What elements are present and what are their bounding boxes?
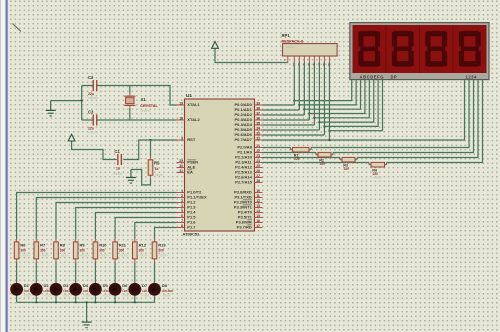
label R11 <box>119 243 127 248</box>
svg-text:LED-RED: LED-RED <box>162 289 174 293</box>
svg-text:220: 220 <box>373 172 379 176</box>
junction P0.7/RP1 <box>328 139 330 141</box>
display screen <box>353 25 487 73</box>
ground (LED rail) <box>82 322 92 328</box>
text C1 placeholder <box>113 172 124 176</box>
svg-text:XTAL1: XTAL1 <box>187 102 200 107</box>
wire LED cathode rail <box>17 301 155 303</box>
value D6 LED-RED <box>122 289 134 293</box>
text C2 placeholder <box>88 96 99 100</box>
wire crystal top lead <box>129 86 131 97</box>
pin P1.5 (6) <box>177 214 197 220</box>
svg-text:R13: R13 <box>158 243 166 248</box>
value D7 LED-RED <box>142 289 154 293</box>
svg-text:<TEXT>: <TEXT> <box>294 161 304 165</box>
label X1 <box>141 97 147 102</box>
text R5 placeholder <box>154 173 165 177</box>
label R10 <box>99 243 107 248</box>
wire R13 to D8 <box>154 259 156 284</box>
label C3 <box>88 110 94 115</box>
svg-text:15: 15 <box>256 214 260 218</box>
value D8 LED-RED <box>162 289 174 293</box>
svg-text:X1: X1 <box>141 97 147 102</box>
svg-text:<TEXT>: <TEXT> <box>63 295 73 298</box>
svg-text:24: 24 <box>256 159 260 163</box>
text D2 placeholder <box>44 295 54 298</box>
svg-text:<TEXT>: <TEXT> <box>83 295 93 298</box>
wire R7 to D2 <box>35 259 37 284</box>
wire RP1 pin 5 pull-up to P0.3 <box>308 56 310 120</box>
wire display segment B <box>299 80 356 105</box>
pin P0.1/AD1 (38) <box>234 106 262 112</box>
pin P1.0/T2 (1) <box>177 189 203 195</box>
wire display segment F <box>319 80 373 123</box>
text D5 placeholder <box>103 295 113 298</box>
svg-text:RP1: RP1 <box>282 33 291 38</box>
svg-text:AT89C52: AT89C52 <box>183 231 201 236</box>
wire ground branch <box>51 100 82 102</box>
pin P3.1/TXD (11) <box>234 194 262 200</box>
svg-text:16: 16 <box>256 219 260 223</box>
label D8 <box>162 283 168 288</box>
svg-text:31: 31 <box>179 169 183 173</box>
svg-text:D4: D4 <box>83 283 89 288</box>
wire R4 to display digit 4 <box>385 80 483 165</box>
svg-text:26: 26 <box>256 169 260 173</box>
pin P2.3/A11 (24) <box>235 159 262 165</box>
wire R9 to D4 <box>75 259 77 284</box>
svg-text:<TEXT>: <TEXT> <box>88 131 99 135</box>
value R1 220 <box>294 157 300 161</box>
led D3 <box>50 283 62 295</box>
svg-text:<TEXT>: <TEXT> <box>103 295 113 298</box>
svg-text:R12: R12 <box>139 243 147 248</box>
resistor R13 <box>152 242 157 259</box>
svg-text:17: 17 <box>256 224 260 228</box>
pin P3.0/RXD (10) <box>234 189 262 195</box>
value C2 22u <box>88 92 94 96</box>
label R12 <box>139 243 147 248</box>
text RP1 placeholder <box>285 45 295 49</box>
svg-text:9: 9 <box>181 136 183 140</box>
led D1 <box>11 283 23 295</box>
wire D8 to cathode rail <box>154 295 156 303</box>
cursor line <box>13 24 22 32</box>
display digit 3 (8) <box>425 31 447 67</box>
svg-text:37: 37 <box>256 111 260 115</box>
wire RP1 pin 3 pull-up to P0.1 <box>298 56 300 110</box>
svg-text:34: 34 <box>256 126 260 130</box>
wire P1.1 to R7 column <box>36 198 176 242</box>
label D1 <box>24 283 30 288</box>
capacitor C2 <box>93 80 98 91</box>
resistor R5 <box>148 160 153 175</box>
wire R5 top lead <box>150 140 152 160</box>
label R9 <box>80 243 86 248</box>
svg-text:29: 29 <box>179 159 183 163</box>
display digit 1 (8) <box>358 31 380 67</box>
svg-text:35: 35 <box>256 121 260 125</box>
svg-text:R8: R8 <box>60 243 66 248</box>
label D5 <box>103 283 109 288</box>
wire P1.5 to R11 column <box>115 218 176 242</box>
display digit 2 (8) <box>392 31 414 67</box>
pin P1.4 (5) <box>177 209 197 215</box>
display cell separator 2 <box>419 25 421 73</box>
capacitor C3 <box>93 115 98 126</box>
svg-text:<TEXT>: <TEXT> <box>44 295 54 298</box>
text R10 placeholder <box>99 254 109 258</box>
wire rail to ground <box>86 302 88 322</box>
pin P2.6/A14 (27) <box>235 174 262 180</box>
pin P0.6/AD6 (33) <box>234 131 262 137</box>
svg-text:10: 10 <box>256 189 260 193</box>
svg-text:<TEXT>: <TEXT> <box>154 173 165 177</box>
pin P2.7/A15 (28) <box>235 179 262 185</box>
svg-text:<TEXT>: <TEXT> <box>20 254 30 258</box>
crystal X1 <box>124 96 135 105</box>
svg-text:D2: D2 <box>44 283 50 288</box>
svg-text:D7: D7 <box>142 283 148 288</box>
value D5 LED-RED <box>103 289 115 293</box>
svg-text:25: 25 <box>256 164 260 168</box>
label C1 <box>115 149 121 154</box>
node VCC power arrow (RP1) <box>212 42 219 50</box>
svg-text:R6: R6 <box>20 243 26 248</box>
wire RP1 pin 2 pull-up to P0.0 <box>293 56 295 105</box>
wire P2.3 to R4 <box>263 163 372 165</box>
pin P3.5/T1 (15) <box>238 214 263 220</box>
pin P1.3 (4) <box>177 204 197 210</box>
wire P0.2 row <box>263 114 305 116</box>
resistor R4 <box>371 162 385 167</box>
pin P0.7/AD7 (32) <box>234 136 262 142</box>
pin P3.3/INT1 (13) <box>234 204 263 210</box>
svg-text:P2.7/A15: P2.7/A15 <box>235 180 252 185</box>
resistor R11 <box>113 242 118 259</box>
led D6 <box>109 283 121 295</box>
svg-text:6: 6 <box>181 214 183 218</box>
svg-text:220: 220 <box>344 167 350 171</box>
svg-text:7: 7 <box>181 219 183 223</box>
junction segment net H <box>328 130 330 132</box>
label R13 <box>158 243 166 248</box>
value R10 300 <box>99 249 105 253</box>
wire RP1 pin 6 pull-up to P0.4 <box>313 56 315 125</box>
label D7 <box>142 283 148 288</box>
svg-text:1u: 1u <box>116 166 120 170</box>
label R6 <box>20 243 26 248</box>
text R1 placeholder <box>294 161 304 165</box>
value R5 1k <box>155 167 159 171</box>
wire R2 to display digit 2 <box>331 80 474 155</box>
text D6 placeholder <box>122 295 132 298</box>
label R4 <box>372 168 378 172</box>
value C1 1u <box>116 166 120 170</box>
pin P0.4/AD4 (35) <box>234 121 262 127</box>
svg-text:220: 220 <box>320 162 326 166</box>
svg-text:P3.7/RD: P3.7/RD <box>237 225 252 230</box>
pin P0.2/AD2 (37) <box>234 111 262 117</box>
led D4 <box>70 283 82 295</box>
wire R11 to D6 <box>114 259 116 284</box>
pin P2.5/A13 (26) <box>235 169 262 175</box>
svg-text:D6: D6 <box>122 283 128 288</box>
svg-text:R9: R9 <box>80 243 86 248</box>
svg-text:30: 30 <box>179 164 183 168</box>
wire RP1 pin 4 pull-up to P0.2 <box>303 56 305 115</box>
text D3 placeholder <box>63 295 73 298</box>
text R13 placeholder <box>158 254 168 258</box>
value U1 AT89C52 <box>183 231 201 236</box>
svg-text:13: 13 <box>256 204 260 208</box>
svg-text:C1: C1 <box>115 149 121 154</box>
wire P1.4 to R10 column <box>95 213 176 242</box>
svg-text:<TEXT>: <TEXT> <box>24 295 34 298</box>
wire R10 to D5 <box>94 259 96 284</box>
pin P1.7 (8) <box>177 224 197 230</box>
RP1 pin numbers <box>284 59 330 67</box>
value RP1 RESPACK-8 <box>282 39 304 43</box>
wire D7 to cathode rail <box>134 295 136 303</box>
wire D3 to cathode rail <box>55 295 57 303</box>
svg-text:P1.7: P1.7 <box>187 225 196 230</box>
value C3 22u <box>88 127 94 131</box>
value X1 CRYSTAL <box>140 104 158 108</box>
value D2 LED-RED <box>44 289 56 293</box>
wire D6 to cathode rail <box>114 295 116 303</box>
svg-text:<TEXT>: <TEXT> <box>119 254 129 258</box>
svg-text:R5: R5 <box>154 160 160 165</box>
junction segment net A <box>293 100 295 102</box>
value R2 220 <box>320 162 326 166</box>
value D1 LED-RED <box>24 289 36 293</box>
resistor R6 <box>14 242 19 259</box>
svg-text:XTAL2: XTAL2 <box>187 117 200 122</box>
pin P1.6 (7) <box>177 219 197 225</box>
text R11 placeholder <box>119 254 129 258</box>
node VCC power arrow (reset) <box>68 134 75 142</box>
wire P1.7 to R13 column <box>155 228 177 242</box>
wire display segment DP <box>329 80 382 131</box>
junction segment net B <box>298 104 300 106</box>
svg-text:19: 19 <box>179 101 183 105</box>
svg-text:<TEXT>: <TEXT> <box>142 295 152 298</box>
pin P2.2/A10 (23) <box>235 154 262 160</box>
resistor R1 <box>293 147 309 152</box>
text X1 placeholder <box>140 109 151 113</box>
pin P3.2/INT0 (12) <box>234 199 263 205</box>
pin P2.4/A12 (25) <box>235 164 262 170</box>
mcu U1 body <box>185 99 255 231</box>
junction rail center <box>86 301 88 303</box>
wire P0.6 row <box>263 134 325 136</box>
pin P3.7/RD (17) <box>237 224 263 230</box>
svg-text:4: 4 <box>181 204 183 208</box>
wire D1 to cathode rail <box>16 295 18 303</box>
junction at ground rail <box>81 100 83 102</box>
wire R1 to display digit 1 <box>309 80 469 150</box>
led D8 <box>149 283 161 295</box>
wire left ground rail vertical <box>81 86 83 121</box>
wire P0.3 row <box>263 119 310 121</box>
pin RST (9) <box>177 136 196 142</box>
svg-text:300: 300 <box>80 249 86 253</box>
svg-text:8: 8 <box>181 224 183 228</box>
pin XTAL2 (18) <box>177 116 201 122</box>
wire crystal bottom lead <box>129 105 131 120</box>
svg-text:5: 5 <box>181 209 183 213</box>
capacitor C1 <box>117 154 122 165</box>
svg-text:300: 300 <box>40 249 46 253</box>
wire D4 to cathode rail <box>75 295 77 303</box>
label R3 <box>343 163 348 167</box>
svg-text:220: 220 <box>294 157 300 161</box>
svg-text:RESPACK-8: RESPACK-8 <box>282 39 304 43</box>
wire R12 to D7 <box>134 259 136 284</box>
svg-text:<TEXT>: <TEXT> <box>162 295 172 298</box>
text R7 placeholder <box>40 254 50 258</box>
svg-text:<TEXT>: <TEXT> <box>140 109 151 113</box>
wire RP1 pin 9 pull-up to P0.7 <box>328 56 330 140</box>
svg-text:14: 14 <box>256 209 260 213</box>
value R3 220 <box>344 167 350 171</box>
display digit labels 1234 <box>466 74 477 79</box>
display cell separator 3 <box>452 25 454 73</box>
wire P0.5 row <box>263 129 320 131</box>
svg-text:C2: C2 <box>88 75 94 80</box>
pin P0.5/AD5 (34) <box>234 126 262 132</box>
wire display segment G <box>324 80 378 127</box>
label RP1 <box>282 33 291 38</box>
wire R8 to D3 <box>55 259 57 284</box>
junction rail col 5 <box>114 301 116 303</box>
pin P2.0/A8 (21) <box>237 144 262 150</box>
value R11 300 <box>119 249 125 253</box>
wire VCC to C1 <box>72 142 117 160</box>
svg-text:<TEXT>: <TEXT> <box>139 254 149 258</box>
svg-text:3: 3 <box>181 199 183 203</box>
led D7 <box>129 283 141 295</box>
svg-text:1k: 1k <box>155 167 159 171</box>
svg-text:<TEXT>: <TEXT> <box>60 254 70 258</box>
svg-text:D5: D5 <box>103 283 109 288</box>
text D8 placeholder <box>162 295 172 298</box>
svg-text:ABCDEFG: ABCDEFG <box>360 74 385 79</box>
text R6 placeholder <box>20 254 30 258</box>
pin P3.4/T0 (14) <box>238 209 263 215</box>
svg-text:300: 300 <box>60 249 66 253</box>
text R9 placeholder <box>80 254 90 258</box>
wire P0.7 row to display <box>263 80 465 140</box>
label U1 <box>186 93 192 98</box>
wire R3 to display digit 3 <box>355 80 478 160</box>
svg-text:<TEXT>: <TEXT> <box>80 254 90 258</box>
value D3 LED-RED <box>63 289 75 293</box>
label R8 <box>60 243 66 248</box>
svg-text:EA: EA <box>187 170 193 175</box>
text R12 placeholder <box>139 254 149 258</box>
text D7 placeholder <box>142 295 152 298</box>
wire XTAL2 net (C3 rail to pin 18) <box>82 119 177 121</box>
svg-text:28: 28 <box>256 179 260 183</box>
wire P2.1 to R2 <box>263 153 319 155</box>
led D5 <box>89 283 101 295</box>
display segment labels <box>360 74 398 79</box>
label R7 <box>40 243 46 248</box>
wire D2 to cathode rail <box>35 295 37 303</box>
resistor R3 <box>342 157 355 162</box>
resistor R10 <box>93 242 98 259</box>
label C2 <box>88 75 94 80</box>
value D4 LED-RED <box>83 289 95 293</box>
svg-text:<TEXT>: <TEXT> <box>40 254 50 258</box>
svg-text:D8: D8 <box>162 283 168 288</box>
wire P0.4 row <box>263 124 315 126</box>
svg-text:23: 23 <box>256 154 260 158</box>
junction segment net D <box>308 112 310 114</box>
svg-text:1234: 1234 <box>466 74 477 79</box>
label D3 <box>63 283 69 288</box>
display digit 4 (8) <box>459 31 481 67</box>
resistor R9 <box>73 242 78 259</box>
pin ALE (30) <box>177 164 196 170</box>
wire XTAL1 net (C2 rail to pin 19) <box>82 86 177 106</box>
junction segment net G <box>323 125 325 127</box>
pin PSEN (29) <box>177 159 199 165</box>
svg-text:U1: U1 <box>186 93 192 98</box>
text D4 placeholder <box>83 295 93 298</box>
pin P3.6/WR (16) <box>236 219 263 225</box>
display cell separator 1 <box>385 25 387 73</box>
svg-text:D3: D3 <box>63 283 69 288</box>
junction segment net E <box>313 117 315 119</box>
pin P0.3/AD3 (36) <box>234 116 262 122</box>
svg-text:R10: R10 <box>99 243 107 248</box>
junction rail col 3 <box>75 301 77 303</box>
svg-text:1: 1 <box>181 189 183 193</box>
svg-text:32: 32 <box>256 136 260 140</box>
svg-text:39: 39 <box>256 101 260 105</box>
ground (crystal caps) <box>46 101 56 116</box>
svg-text:300: 300 <box>20 249 26 253</box>
svg-text:<TEXT>: <TEXT> <box>88 96 99 100</box>
display frame <box>350 23 489 80</box>
svg-text:36: 36 <box>256 116 260 120</box>
label D2 <box>44 283 50 288</box>
svg-text:R11: R11 <box>119 243 127 248</box>
junction segment net C <box>303 108 305 110</box>
wire D5 to cathode rail <box>94 295 96 303</box>
wire P1.2 to R8 column <box>56 203 177 242</box>
wire P2.0 to R1 <box>263 148 293 150</box>
label R5 <box>154 160 160 165</box>
wire RP1 pin 7 pull-up to P0.5 <box>318 56 320 130</box>
pin EA (31) <box>177 169 193 175</box>
text D1 placeholder <box>24 295 34 298</box>
svg-text:2: 2 <box>181 194 183 198</box>
wire R5 bottom to ground <box>131 170 151 185</box>
wire display segment D <box>309 80 365 114</box>
led D2 <box>30 283 42 295</box>
svg-text:12: 12 <box>256 199 260 203</box>
svg-text:11: 11 <box>256 194 260 198</box>
svg-text:18: 18 <box>179 116 183 120</box>
svg-text:<TEXT>: <TEXT> <box>158 254 168 258</box>
wire VCC to RP1 common pin 1 <box>215 49 288 63</box>
value R6 300 <box>20 249 26 253</box>
window left border <box>0 0 8 332</box>
